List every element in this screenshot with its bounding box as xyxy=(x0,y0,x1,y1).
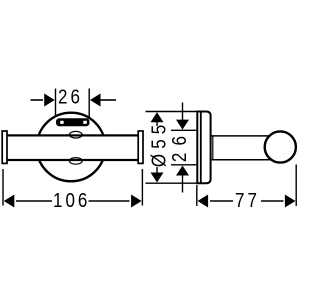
center peg ellipse bottom xyxy=(69,158,82,165)
mounting slot (black) xyxy=(56,118,90,126)
svg-text:106: 106 xyxy=(53,189,90,212)
side 26 dimension: top extension line xyxy=(171,129,196,131)
bar body (white over circle) xyxy=(4,135,139,160)
bottom dimension 106: left arrow xyxy=(4,195,15,208)
diameter 55 dimension: line segment top xyxy=(156,121,158,126)
mounting plate circle Ø55 xyxy=(37,113,106,182)
top dimension 26: left tail line xyxy=(31,99,44,101)
side 26 dimension: top arrow xyxy=(176,120,189,130)
bottom dimension 106: right arrow xyxy=(131,195,142,208)
side 26 dimension: top tail line xyxy=(182,103,184,121)
bottom dimension 77: line segment right xyxy=(261,200,284,202)
side 26 dimension: bottom arrow xyxy=(176,166,189,176)
side 26 dimension: bottom tail line xyxy=(182,175,184,193)
top dimension 26: left arrow xyxy=(44,94,55,107)
svg-text:26: 26 xyxy=(58,85,83,108)
hook ball xyxy=(265,131,296,162)
bottom dimension 106: line segment right xyxy=(89,200,130,202)
hook rod top line xyxy=(211,135,270,137)
top dimension 26: right arrow xyxy=(90,94,101,107)
bottom dimension 106: line segment left xyxy=(16,200,52,202)
side 26 dimension: bottom extension line xyxy=(171,164,196,166)
bottom dimension 106: extension line right xyxy=(141,169,143,206)
top dimension 26: extension line right xyxy=(88,89,90,118)
slot screw hole left xyxy=(60,121,64,124)
diameter 55 dimension: line segment bottom xyxy=(156,167,158,173)
top dimension 26: extension line left xyxy=(55,89,57,118)
svg-text:77: 77 xyxy=(235,189,260,212)
diameter 55 dimension: top arrow xyxy=(151,112,164,122)
bottom dimension 77: extension line left xyxy=(196,185,198,206)
bar right end flange xyxy=(138,131,143,163)
bottom dimension 77: extension line right xyxy=(295,165,297,207)
hook rod joint line xyxy=(212,136,214,160)
slot screw hole right xyxy=(83,121,87,124)
top dimension 26: right tail line xyxy=(100,99,116,101)
bottom dimension 77: left arrow xyxy=(198,195,209,208)
svg-text:26: 26 xyxy=(168,129,191,162)
bottom dimension 77: line segment left xyxy=(210,200,233,202)
bottom dimension 77: right arrow xyxy=(285,195,296,208)
bar left end flange xyxy=(2,131,7,163)
diameter 55 dimension: bottom arrow xyxy=(151,173,164,183)
center peg ellipse top xyxy=(69,131,82,138)
wall plate inner line xyxy=(200,112,202,184)
hook rod bottom line xyxy=(211,159,270,161)
diameter 55 dimension: bottom extension line xyxy=(146,182,197,184)
diameter 55 dimension: top extension line xyxy=(146,111,197,113)
bottom dimension 106: extension line left xyxy=(2,169,4,206)
svg-text:Ø55: Ø55 xyxy=(147,120,170,167)
wall plate profile xyxy=(197,112,210,184)
